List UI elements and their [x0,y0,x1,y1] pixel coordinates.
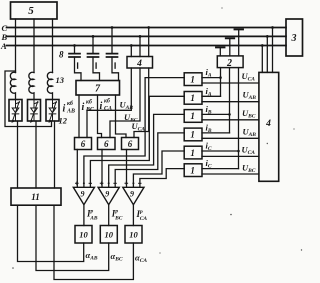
wire i_kb_CA from block 7 to block 6.3 [116,95,127,138]
wire alpha_CA block 10.3 to block 11 [54,205,133,279]
wire capacitor C2 tail into block 7 [93,57,100,81]
svg-text:4: 4 [265,119,271,129]
junctions leg 1 on buses C B A [15,27,17,29]
svg-text:2: 2 [226,58,232,69]
svg-text:iB: iB [206,122,212,134]
capacitor C3 plates [107,54,118,57]
junction tall block 4 tap on bus A [261,44,264,47]
block 2 [217,56,243,68]
wire U_BC to block 1.3 / tall 4 [202,119,259,121]
junction ic line row 5 [237,150,240,153]
block 11 [11,188,61,205]
svg-text:AB: AB [66,109,75,115]
transducer block 1.5 [184,146,202,159]
svg-text:7: 7 [95,84,101,95]
capacitor C1 tap from bus A [74,46,76,53]
svg-text:iC: iC [206,141,212,153]
junction block 4 tap on bus B [139,35,142,38]
wire CT B to block 2 [229,39,231,56]
svg-text:UCA: UCA [242,71,256,83]
svg-text:12: 12 [59,116,68,126]
wire CT A to block 2 [219,48,221,56]
wire i_A to block 1.2 [202,95,221,97]
wire U_BC from block 4 to block 6.2 [110,68,140,138]
junction block 4 tap on bus A [130,44,133,47]
block 3 [286,19,303,56]
wire U_CA to block 1.1 / tall 4 [202,82,259,84]
polarity marks comparator 9.3 [125,182,129,186]
CT tick on C1 tail [77,63,79,68]
block 10.2 [100,226,117,244]
bus C [7,27,287,29]
svg-text:9: 9 [81,190,85,199]
svg-text:1: 1 [190,130,195,140]
svg-text:1: 1 [190,148,195,158]
svg-text:1: 1 [190,93,195,103]
capacitor C2 plates [88,54,99,57]
wire block 1.5 to comparator 9.3 middle [133,151,184,187]
bus A [7,45,287,47]
wire i_kb_BC from block 7 to block 6.2 [98,95,102,138]
wire leg phase 2 from block 5 [33,19,35,73]
junction cap C3 on bus C [111,26,114,29]
svg-text:1: 1 [190,111,195,121]
svg-text:iA: iA [206,67,212,79]
comparator 9.3 [123,187,144,204]
coil L3 (reactor 13) [47,72,52,99]
wire i_B to block 1.4 [202,132,230,134]
wire bracket delta return [5,71,52,127]
junctions leg 2 on buses C B A [33,27,35,29]
svg-text:5: 5 [28,5,34,17]
wire i_B to block 1.3 [202,113,230,115]
svg-text:IpBC: IpBC [111,209,123,222]
svg-text:8: 8 [59,50,64,60]
svg-text:13: 13 [56,75,65,85]
wire block 1.4 to comparator 9.2 right [115,133,184,187]
CT bar on bus B [226,37,234,39]
wire alpha_AB block 10.1 to block 11 [18,205,84,261]
wire comparator 9.3 to block 10.3 [132,205,134,226]
block 6.3 [122,138,139,150]
svg-text:6: 6 [128,139,133,149]
transducer block 1.3 [184,110,202,123]
block 10.3 [125,226,142,244]
wire comparator 9.1 to block 10.1 [83,205,85,226]
svg-text:кб: кб [86,99,93,106]
wire capacitor C1 tail into block 7 [75,57,82,81]
transducer block 1.6 [184,164,202,177]
wire leg phase 1 from block 5 [15,19,17,73]
coil L2 (reactor 13) [29,72,34,99]
transducer block 1.2 [184,92,202,105]
svg-text:10: 10 [105,230,114,240]
wire tap bus A to tall block 4 [261,46,263,73]
block 4 (top voltage unit) [127,57,153,69]
wire tap bus C to tall block 4 [272,28,274,73]
svg-text:BC: BC [85,107,95,113]
svg-text:4: 4 [136,59,142,69]
svg-text:9: 9 [130,190,134,199]
wire capacitor C3 tail into block 7 [112,57,119,81]
wire tap bus A to block 4 [130,46,132,57]
junction tall block 4 tap on bus C [271,26,274,29]
svg-text:iB: iB [206,104,212,116]
junction cap C2 on bus B [92,35,95,38]
block 6.1 [75,138,92,150]
svg-text:A: A [0,41,7,51]
svg-text:UBC: UBC [242,108,256,120]
svg-text:i: i [82,102,85,113]
svg-text:i: i [100,101,103,112]
CT tick on C2 tail [95,63,97,68]
svg-text:UAB: UAB [243,126,257,138]
thyristor valve VS2 (block 12) [28,100,41,123]
thyristor valve VS3 (block 12) [46,100,59,123]
junction cap C1 on bus A [73,44,76,47]
capacitor C2 tap from bus B [92,36,94,52]
svg-text:кб: кб [67,100,74,107]
wire U_AB to block 1.4 / tall 4 [202,137,259,139]
svg-text:IpCA: IpCA [136,209,148,222]
coil L1 (reactor 13) [10,72,15,99]
svg-text:CA: CA [104,106,112,112]
svg-text:9: 9 [105,190,109,199]
block 10.1 [75,226,92,244]
wire leg phase 3 from block 5 [52,19,54,73]
wire block 1.1 to comparator 9.1 middle [84,78,184,188]
CT bar on bus C [235,28,244,30]
wire U_CA from block 4 to block 6.3 [134,68,149,138]
wire CT C to block 2 [238,30,240,56]
block 6.2 [98,138,116,150]
wire i_kb_AB from block 7 to block 6.1 [78,95,80,138]
wire block 1.2 to comparator 9.1 right [90,96,184,187]
thyristor valve VS1 (block 12) [9,100,22,123]
wire valve VS3 to block 11 [54,121,56,188]
wire U_AB to block 1.2 / tall 4 [202,101,259,103]
wire block 1.6 to comparator 9.3 right [140,169,184,188]
bus B [7,35,287,37]
wire block 6.3 to comparator 9.3 [126,150,128,188]
svg-text:кб: кб [104,98,111,105]
svg-text:αCA: αCA [135,253,147,265]
svg-text:11: 11 [31,192,40,202]
comparator 9.2 [98,187,119,204]
svg-text:UCA: UCA [132,121,146,133]
CT tick on C3 tail [114,63,116,68]
svg-text:UCA: UCA [242,144,256,156]
svg-text:UBC: UBC [242,162,256,174]
wire alpha_BC block 10.2 to block 11 [36,205,109,270]
junction ia line row 1 [219,76,222,79]
wire valve VS2 to block 11 [35,121,37,188]
wire block 6.2 to comparator 9.2 [101,150,103,188]
capacitor C1 plates [69,54,80,57]
wire block 2 output ic [238,68,240,169]
polarity marks comparator 9.2 [100,182,104,186]
transducer block 1.1 [184,73,202,86]
svg-text:1: 1 [190,74,195,84]
wire tap bus C to block 4 [148,28,150,57]
tall block 4 [259,72,279,181]
block 5 (supply) [11,2,58,19]
svg-text:6: 6 [104,139,109,149]
wire tap bus B to block 4 [139,36,141,56]
comparator 9.1 [73,187,94,204]
wire tap bus B to tall block 4 [266,36,268,72]
svg-text:i: i [63,104,66,115]
svg-text:UAB: UAB [243,90,257,102]
wire i_C to block 1.5 [202,150,239,152]
svg-text:3: 3 [291,33,297,44]
wire i_A to block 1.1 [202,77,221,79]
svg-text:IpAB: IpAB [86,209,98,222]
wire block 2 output ia [220,68,222,97]
wire comparator 9.2 to block 10.2 [108,205,110,226]
svg-text:iC: iC [206,158,212,170]
junctions leg 3 on buses C B A [52,27,54,29]
wire U_AB from block 4 to block 6.1 [87,68,131,138]
polarity marks comparator 9.1 [75,182,79,186]
wire valve VS1 to block 11 [17,121,19,188]
svg-text:6: 6 [81,139,86,149]
wire U_BC to block 1.6 / tall 4 [202,173,259,175]
capacitor C3 tap from bus C [111,28,113,53]
svg-text:1: 1 [190,165,195,175]
svg-text:10: 10 [79,230,88,240]
svg-text:αBC: αBC [111,251,123,263]
svg-text:iA: iA [206,86,212,98]
wire block 6.1 to comparator 9.1 [76,150,78,188]
junction ib line row 3 [228,113,231,116]
junction tall block 4 tap on bus B [266,35,269,38]
CT bar on bus A [216,46,225,48]
junction block 4 tap on bus C [147,26,150,29]
wire i_C to block 1.6 [202,168,239,170]
svg-text:αAB: αAB [86,250,98,262]
wire block 1.3 to comparator 9.2 middle [109,114,185,187]
block 7 [76,81,120,96]
wire block 2 output ib [229,68,231,133]
wire U_CA to block 1.5 / tall 4 [202,155,259,157]
svg-text:10: 10 [129,230,138,240]
transducer block 1.4 [184,128,202,141]
